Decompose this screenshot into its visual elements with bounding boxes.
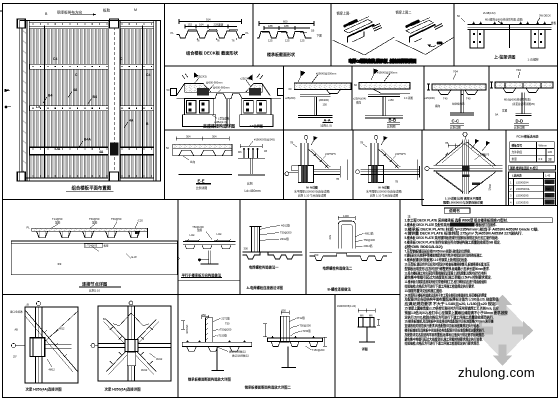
- svg-text:M- M详图: M- M详图: [306, 186, 318, 190]
- svg-text:7B: 7B: [290, 141, 293, 145]
- svg-text:7Φ4: 7Φ4: [516, 68, 522, 72]
- svg-text:钢梁上翼-: 钢梁上翼-: [337, 11, 351, 16]
- svg-text:4M12: 4M12: [141, 369, 148, 372]
- svg-text:JA: JA: [56, 147, 61, 151]
- section B-B: [353, 69, 413, 129]
- section A-A: [285, 71, 351, 128]
- svg-text:L50*50*5: L50*50*5: [325, 152, 336, 156]
- svg-text:188: 188: [284, 24, 289, 28]
- svg-text:500: 500: [328, 235, 332, 240]
- plan outer boundary: [20, 21, 161, 182]
- svg-text:钢承板排布方向: 钢承板排布方向: [57, 9, 83, 14]
- deck bearing blow-up detail 2: [245, 309, 327, 390]
- svg-text:L选用表: L选用表: [512, 174, 522, 178]
- svg-text:D-D: D-D: [516, 119, 524, 124]
- svg-text:2Φ12筋: 2Φ12筋: [364, 244, 373, 248]
- svg-text:T150@200: T150@200: [312, 349, 325, 352]
- svg-text:2T12筋: 2T12筋: [297, 316, 306, 320]
- svg-text:600: 600: [283, 19, 288, 23]
- black grid lines: [43, 26, 45, 178]
- svg-text:12.楼承板与钢梁连接采用栓钉穿透焊接工艺,栓钉焊接后应进行: 12.楼承板与钢梁连接采用栓钉穿透焊接工艺,栓钉焊接后应进行弯曲检验和: [405, 279, 488, 284]
- svg-text:L50X50X4: L50X50X4: [516, 180, 529, 184]
- svg-text:下翼: 下翼: [317, 34, 323, 38]
- row3 dividers: [283, 130, 285, 200]
- bearing connection detail (row2 cell1): [167, 73, 284, 129]
- svg-text:钢梁-楼承板连接 Φ-栓钉: 钢梁-楼承板连接 Φ-栓钉: [510, 166, 538, 170]
- svg-text:楼板型号: 楼板型号: [512, 143, 523, 147]
- corrugated profile: [177, 31, 246, 38]
- svg-text:及配筋详见各层结构平面布置图,板厚标注值执行规定要求验收规范: 及配筋详见各层结构平面布置图,板厚标注值执行规定要求验收规范.: [405, 332, 485, 337]
- weld stud method 1: [243, 224, 303, 270]
- svg-text:拉拔抽检,合格后方可进行下道工序施工检验规定执行要求规范.: 拉拔抽检,合格后方可进行下道工序施工检验规定执行要求规范.: [405, 341, 480, 346]
- svg-text:T50@200: T50@200: [280, 231, 292, 235]
- svg-text:7Φ4: 7Φ4: [453, 70, 459, 74]
- svg-text:比例1:10: 比例1:10: [89, 288, 100, 292]
- studs: [472, 22, 546, 25]
- svg-text:电焊螺栓构造做法二: 电焊螺栓构造做法二: [323, 265, 353, 270]
- svg-text:188: 188: [268, 24, 273, 28]
- deck slab: [182, 342, 251, 346]
- brace square detail 2: [91, 301, 171, 392]
- svg-text:M16@600(梅花形布置): M16@600(梅花形布置): [504, 98, 531, 102]
- svg-text:4M12: 4M12: [156, 358, 163, 361]
- svg-text:M6: M6: [369, 315, 373, 318]
- svg-text:150X28: 150X28: [185, 325, 189, 335]
- svg-text:22T2筋: 22T2筋: [221, 317, 230, 321]
- svg-text:纵向: 纵向: [190, 160, 196, 164]
- svg-text:M6: M6: [360, 315, 364, 318]
- svg-text:350: 350: [202, 313, 207, 317]
- row3 bottom: [3, 199, 425, 201]
- svg-text:比例(1:5): 比例(1:5): [321, 124, 332, 128]
- weld stud method 2: [247, 214, 392, 292]
- svg-text:600: 600: [546, 201, 551, 205]
- svg-text:比例 1:10 节点连接详图: 比例 1:10 节点连接详图: [370, 194, 399, 198]
- svg-text:1:45: 1:45: [545, 174, 551, 178]
- svg-text:8.铺板前应先清理平整楼面钢梁表面污物,并按规定进行放线布板: 8.铺板前应先清理平整楼面钢梁表面污物,并按规定进行放线布板施工.: [405, 253, 483, 258]
- svg-text:加筋: 加筋: [55, 220, 61, 224]
- svg-text:M16螺栓@600(梅花形布置,详图): M16螺栓@600(梅花形布置,详图): [485, 18, 523, 22]
- svg-text:1-T14@X5: 1-T14@X5: [85, 245, 98, 248]
- row2 dividers: [283, 66, 285, 130]
- svg-text:7B: 7B: [395, 181, 398, 184]
- svg-text:楼板: 楼板: [551, 21, 557, 25]
- isometric weld sketches: [333, 10, 454, 64]
- svg-text:125: 125: [300, 39, 305, 43]
- svg-text:水平隅撑L50X50X5(连接详图): 水平隅撑L50X50X5(连接详图): [294, 190, 330, 194]
- svg-text:914: 914: [206, 17, 211, 21]
- deck profile detail 1: [171, 17, 250, 56]
- brace connection detail M: [285, 135, 347, 197]
- svg-text:PL: PL: [171, 31, 175, 35]
- support columns: [185, 99, 272, 115]
- svg-text:钢承板楼面断面构造放大详图: 钢承板楼面断面构造放大详图: [188, 377, 232, 382]
- svg-text:4Φ12筋: 4Φ12筋: [365, 232, 374, 236]
- svg-text:W6mm: W6mm: [539, 143, 548, 147]
- svg-text:13.钢筋布置详见结构施工图纸.: 13.钢筋布置详见结构施工图纸.: [405, 288, 443, 293]
- svg-text:钢承板楼面断面构造放大详图二: 钢承板楼面断面构造放大详图二: [245, 385, 292, 390]
- svg-text:C4: C4: [146, 73, 150, 77]
- svg-text:1:5比例图: 1:5比例图: [250, 123, 263, 128]
- svg-text:5.楼承板 DECK PLATE 采用镀锌板按现行国家标准规: 5.楼承板 DECK PLATE 采用镀锌板按现行国家标准规定执行加工制作验收.: [405, 235, 499, 240]
- row2/3 divider: [165, 129, 558, 131]
- small stud I-beam detail (bottom middle-right): [337, 304, 380, 351]
- notes text lines: [404, 218, 552, 346]
- svg-text:E-W: E-W: [132, 255, 138, 259]
- svg-text:支座连接构造详图: 支座连接构造详图: [202, 122, 235, 128]
- svg-text:Ld=450mm: Ld=450mm: [245, 189, 261, 193]
- svg-text:4.镀锌量 DECK PLATE 标准锌层 275g/m²: 4.镀锌量 DECK PLATE 标准锌层 275g/m² 为A653M A65…: [405, 231, 523, 236]
- svg-text:应满足规范要求 不大于 L/180且≤20, L/180且≤: 应满足规范要求 不大于 L/180且≤20, L/180且≤20 规定.: [405, 301, 497, 306]
- svg-text:L型加劲板: L型加劲板: [218, 117, 230, 121]
- svg-text:550: 550: [546, 194, 551, 198]
- leader flags inside plan: [36, 57, 150, 154]
- svg-text:38: 38: [548, 157, 552, 161]
- svg-text:比例图: 比例图: [387, 125, 396, 129]
- long beam lines: [11, 241, 179, 275]
- svg-text:7.压型钢板铺设前应按70X50mm间距-放线定位焊接.: 7.压型钢板铺设前应按70X50mm间距-放线定位焊接.: [405, 248, 471, 253]
- svg-text:加劲板加筋: 加劲板加筋: [452, 102, 465, 106]
- svg-text:1:(3)螺栓: 1:(3)螺栓: [528, 58, 540, 62]
- svg-text:横向: 横向: [356, 101, 362, 105]
- beam dots: [33, 23, 160, 176]
- svg-text:比例详图: 比例详图: [450, 126, 461, 130]
- svg-text:1400: 1400: [343, 214, 349, 218]
- svg-text:350: 350: [282, 309, 287, 313]
- stud I-beam detail (Ld): [238, 137, 275, 193]
- svg-text:C50: C50: [437, 41, 443, 45]
- deck slab: [32, 228, 148, 231]
- svg-text:宽翼: 宽翼: [502, 109, 508, 113]
- zhulong watermark: [458, 295, 535, 381]
- svg-text:≤25(%)(X4): ≤25(%)(X4): [353, 97, 366, 101]
- svg-text:4A: 4A: [99, 150, 104, 154]
- svg-text:钢梁上翼二: 钢梁上翼二: [396, 10, 412, 15]
- center joint lines: [226, 99, 228, 127]
- svg-text:6.楼承板 DECK PLATE 制作安装应符合钢结构施工质: 6.楼承板 DECK PLATE 制作安装应符合钢结构施工质量验收规范GB 规定…: [405, 240, 501, 245]
- svg-text:4Φ12筋: 4Φ12筋: [281, 224, 290, 228]
- row1 dividers: [252, 4, 254, 67]
- svg-text:AB: AB: [15, 329, 19, 332]
- svg-text:水平隅撑L50X50X5(连接详图): 水平隅撑L50X50X5(连接详图): [366, 190, 402, 194]
- svg-text:≤25(200): ≤25(200): [285, 96, 295, 100]
- svg-text:300: 300: [244, 247, 249, 251]
- svg-text:次梁 H350(4A)连接详图: 次梁 H350(4A)连接详图: [26, 387, 63, 392]
- svg-text:电焊螺栓构造做法一: 电焊螺栓构造做法一: [249, 265, 279, 270]
- svg-text:2Φ12筋: 2Φ12筋: [280, 237, 289, 241]
- svg-text:型钢板出现变形,应及时进行修整更换.板端最小支承长度50mm: 型钢板出现变形,应及时进行修整更换.板端最小支承长度50mm要求.: [405, 266, 490, 271]
- horizontal secondary beams: [21, 64, 161, 178]
- sketch 2: [396, 18, 454, 55]
- svg-text:(按GB 50018-02): (按GB 50018-02): [405, 244, 443, 249]
- svg-text:楼承板端部及连续板中间支座处构造配筋详见标准图集规定要求执行: 楼承板端部及连续板中间支座处构造配筋详见标准图集规定要求执行.: [405, 328, 485, 333]
- svg-text:-C20: -C20: [137, 218, 143, 222]
- svg-text:7B: 7B: [360, 141, 363, 145]
- svg-text:@600-900mm: @600-900mm: [213, 86, 229, 90]
- svg-text:zhulong.com: zhulong.com: [458, 365, 535, 380]
- svg-text:N- N详图: N- N详图: [379, 186, 390, 190]
- svg-text:A-电焊螺栓连接做法详图: A-电焊螺栓连接做法详图: [247, 285, 284, 290]
- svg-text:A-A: A-A: [324, 118, 331, 123]
- svg-text:#190X0@200mm: #190X0@200mm: [377, 71, 397, 75]
- svg-text:1B: 1B: [264, 150, 267, 153]
- column H section: [30, 338, 45, 357]
- svg-text:≤25(200): ≤25(200): [425, 96, 435, 100]
- svg-text:145: 145: [548, 150, 553, 154]
- svg-text:上-弦架详图: 上-弦架详图: [494, 54, 515, 60]
- svg-text:L50X50X4L: L50X50X4L: [516, 187, 531, 191]
- svg-text:组合楼板平面布置图: 组合楼板平面布置图: [72, 185, 112, 192]
- row1/2 divider: [165, 65, 558, 67]
- left margin binding marks: [5, 89, 12, 108]
- svg-text:详图: 详图: [362, 346, 368, 351]
- svg-text:M12: M12: [60, 328, 65, 331]
- deck profile detail 2: [257, 19, 322, 57]
- svg-text:#190X0X5(@245): #190X0X5(@245): [254, 137, 275, 141]
- svg-text:PL: PL: [27, 225, 31, 229]
- svg-text:150: 150: [323, 103, 328, 107]
- svg-text:B4: B4: [48, 94, 52, 98]
- sketch 1: [333, 17, 395, 56]
- svg-text:B-螺栓连接做法: B-螺栓连接做法: [328, 287, 352, 292]
- brace square detail 1: [10, 302, 78, 392]
- svg-text:宜请按相关规范执行要求,构造配筋详见标准图集规定执行验收.: 宜请按相关规范执行要求,构造配筋详见标准图集规定执行验收.: [405, 323, 480, 328]
- diamond diagonals: [434, 142, 498, 193]
- svg-text:76: 76: [232, 38, 235, 42]
- svg-text:16.楼承板端部,及连续板中间支座处构造配筋详见标准图集(X: 16.楼承板端部,及连续板中间支座处构造配筋详见标准图集(XX)mm,未尽事: [405, 319, 495, 324]
- svg-text:C4: C4: [53, 57, 57, 61]
- top labels: [45, 8, 137, 16]
- svg-text:及配筋详见各层结构平面布置图,板厚标注值为 L/180且≤2: 及配筋详见各层结构平面布置图,板厚标注值为 L/180且≤20, 挠度限值: [405, 297, 500, 302]
- svg-text:组合楼板 DECK板 截面形状: 组合楼板 DECK板 截面形状: [186, 50, 239, 57]
- svg-text:#190X0X5(1:24): #190X0X5(1:24): [337, 304, 356, 308]
- brace connection detail N: [356, 135, 420, 197]
- svg-text:横向: 横向: [435, 104, 441, 108]
- svg-text:加筋: 加筋: [92, 220, 98, 224]
- svg-text:3.楼承板 DECK PLATE 材质 fy=235N/mm: 3.楼承板 DECK PLATE 材质 fy=235N/mm²,相当于 A653…: [405, 226, 539, 231]
- truss / edge beam detail (top right): [457, 11, 557, 62]
- svg-text:M: M: [134, 8, 137, 12]
- svg-text:做法(比例做法): 做法(比例做法): [232, 354, 249, 358]
- left beam hatch ticks: [22, 30, 27, 174]
- row4 dividers: [177, 200, 179, 398]
- diamond brace detail: [425, 132, 503, 204]
- svg-text:允许跨度: 允许跨度: [512, 150, 523, 154]
- svg-text:4M12: 4M12: [49, 369, 56, 372]
- column: [462, 140, 468, 195]
- svg-text:(AB/200): (AB/200): [319, 98, 329, 102]
- svg-text:重量: 重量: [512, 157, 518, 161]
- svg-text:L4Θ: L4Θ: [217, 232, 222, 236]
- svg-text:7B: 7B: [336, 178, 339, 181]
- section D-D: [490, 68, 553, 130]
- long deck section (bottom-left): [11, 217, 179, 292]
- svg-text:C-C: C-C: [452, 119, 460, 124]
- svg-text:次梁 H350(6A)连接详图: 次梁 H350(6A)连接详图: [105, 387, 142, 392]
- parallel-direction detail: [178, 225, 240, 281]
- svg-text:板肋: 板肋: [103, 8, 111, 13]
- corner / intersection column blocks: [17, 19, 118, 181]
- svg-text:304: 304: [212, 135, 217, 139]
- right edge beam: [154, 21, 161, 182]
- svg-text:≥T50@200: ≥T50@200: [219, 328, 232, 332]
- svg-text:9.楼承板铺设时按板宽2.1:1号钢梁上放线固定检查.: 9.楼承板铺设时按板宽2.1:1号钢梁上放线固定检查.: [405, 257, 468, 262]
- E-E detail: [166, 135, 232, 190]
- svg-text:L50*50*5: L50*50*5: [479, 153, 490, 157]
- svg-text:L50*50*5: L50*50*5: [395, 152, 406, 156]
- selection tables (right): [509, 134, 556, 206]
- svg-text:15.钢梁上翼缘宽度≥1.25倍栓钉直径时方可采用穿透焊工艺: 15.钢梁上翼缘宽度≥1.25倍栓钉直径时方可采用穿透焊工艺.否则m≤a, 且应: [405, 306, 500, 311]
- top edge beam: [27, 21, 161, 29]
- svg-text:152: 152: [188, 23, 193, 27]
- svg-text:Φ9: Φ9: [58, 262, 62, 266]
- columns: [470, 30, 545, 49]
- svg-text:14.本图所示楼板构造做法适用于本工程全部组合楼盖部位,各层: 14.本图所示楼板构造做法适用于本工程全部组合楼盖部位,各层楼板的厚度: [405, 292, 488, 297]
- bottom row divider: [334, 295, 336, 398]
- svg-text:L50X50X5: L50X50X5: [516, 194, 529, 198]
- vertical divider right of plan view: [164, 4, 166, 200]
- svg-text:做法(比例做法): 做法(比例做法): [229, 350, 246, 354]
- svg-text:B-B: B-B: [389, 118, 397, 123]
- svg-text:预留1.5倍,5(X/2),栓钉中心至钢梁上翼缘边缘距离不小: 预留1.5倍,5(X/2),栓钉中心至钢梁上翼缘边缘距离不小于35mm 要求.按…: [405, 310, 509, 315]
- svg-text:2U48(1X2): 2U48(1X2): [483, 11, 496, 15]
- svg-text:9A: 9A: [495, 113, 498, 117]
- section C-C: [425, 70, 487, 130]
- svg-text:隅撑L50X50X5与次梁连接详图: 隅撑L50X50X5与次梁连接详图: [443, 200, 483, 205]
- deck outline with plateaus over supports: [177, 84, 271, 96]
- svg-text:1.本工程 DECK PLATE 采用楼承板 选用 W600: 1.本工程 DECK PLATE 采用楼承板 选用 W600型 组合楼承板规格V…: [405, 218, 508, 223]
- svg-text:T40: T40: [466, 97, 471, 101]
- svg-text:PL: PL: [246, 31, 250, 35]
- svg-text:⊥B: ⊥B: [25, 303, 29, 307]
- svg-text:0.9: 0.9: [539, 157, 543, 161]
- deck bearing blow-up detail 1: [181, 313, 252, 382]
- svg-text:比例详图: 比例详图: [196, 186, 207, 190]
- svg-text:比例: 比例: [247, 182, 253, 186]
- deck stripe field: [30, 29, 161, 178]
- svg-text:#190X0@200mm: #190X0@200mm: [316, 72, 336, 76]
- svg-text:11.组合楼板施工时应采取可靠措施保证混凝土浇筑质量,浇筑时: 11.组合楼板施工时应采取可靠措施保证混凝土浇筑质量,浇筑时应均匀布料: [405, 270, 488, 275]
- svg-text:(详见总说明详图35): (详见总说明详图35): [512, 102, 535, 106]
- svg-text:E-E: E-E: [198, 179, 205, 184]
- svg-text:450右: 450右: [488, 184, 492, 191]
- svg-text:@600-900mm: @600-900mm: [206, 81, 222, 85]
- svg-text:1B: 1B: [311, 29, 314, 33]
- svg-text:590: 590: [546, 187, 551, 191]
- beam: [30, 344, 71, 348]
- beam: [434, 166, 503, 171]
- svg-text:10.压型板,铺设完毕后应及时固定并检查板缝搭接情况,板端搭: 10.压型板,铺设完毕后应及时固定并检查板缝搭接情况,板端搭接长度,如压: [405, 262, 491, 267]
- svg-text:450: 450: [546, 180, 551, 184]
- svg-text:≤150: ≤150: [388, 98, 394, 102]
- svg-text:76: 76: [217, 38, 220, 42]
- svg-text:T50@200: T50@200: [364, 238, 376, 242]
- diagonals: [25, 310, 78, 372]
- svg-text:76: 76: [197, 38, 200, 42]
- svg-text:T50: T50: [225, 322, 230, 326]
- svg-text:比例详图: 比例详图: [514, 126, 525, 130]
- svg-text:4A: 4A: [129, 119, 134, 123]
- svg-text:125: 125: [285, 39, 290, 43]
- row4 bottom: [3, 294, 401, 296]
- svg-text:平行于楼承板方向构造做法: 平行于楼承板方向构造做法: [182, 272, 222, 277]
- svg-text:L4Θ: L4Θ: [190, 233, 195, 237]
- svg-text:拉拔抽检,合格后方可进行下道工序施工检验规定执行要求.: 拉拔抽检,合格后方可进行下道工序施工检验规定执行要求.: [405, 284, 475, 289]
- svg-text:说明书: 说明书: [449, 208, 460, 213]
- svg-text:B4: B4: [93, 95, 97, 99]
- side brackets: [171, 89, 177, 96]
- svg-text:164: 164: [199, 23, 204, 27]
- svg-text:T50@200: T50@200: [299, 323, 311, 327]
- svg-text:125: 125: [268, 39, 273, 43]
- svg-text:1:1详图: 1:1详图: [404, 96, 413, 100]
- svg-text:避免集中堆载引起过大挠度变形,施工荷载控制要求规定执行验收.: 避免集中堆载引起过大挠度变形,施工荷载控制要求规定执行验收.: [404, 336, 483, 341]
- svg-text:M6: M6: [238, 151, 242, 154]
- svg-text:≥T150筋: ≥T150筋: [217, 333, 227, 337]
- svg-text:定执行,5(X/2),检验合格后方可进行下道工序施工质量验收: 定执行,5(X/2),检验合格后方可进行下道工序施工质量验收规范执行.: [404, 314, 494, 319]
- svg-text:坡口全熔透: 坡口全熔透: [10, 310, 23, 314]
- svg-text:3W DECK: 3W DECK: [539, 14, 551, 18]
- svg-text:25*: 25*: [13, 356, 17, 359]
- svg-text:L5: L5: [36, 105, 40, 109]
- svg-text:T40: T40: [443, 97, 448, 101]
- svg-text:比例 1:10 节点连接详图: 比例 1:10 节点连接详图: [298, 194, 327, 198]
- svg-text:228兼容: 228兼容: [214, 23, 224, 27]
- svg-text:电焊C/螺栓连接,楼承板_侧边梁焊接详图: 电焊C/螺栓连接,楼承板_侧边梁焊接详图: [349, 59, 417, 64]
- svg-text:304: 304: [186, 135, 191, 139]
- svg-text:≥T150筋: ≥T150筋: [301, 329, 311, 333]
- svg-text:T50@50: T50@50: [111, 217, 122, 221]
- svg-text:楼承板截面形状: 楼承板截面形状: [267, 51, 296, 57]
- svg-text:L53X53X5: L53X53X5: [516, 200, 529, 204]
- central vertical beam band: [108, 21, 120, 182]
- svg-text:4A: 4A: [73, 88, 78, 92]
- svg-text:加筋: 加筋: [197, 228, 203, 232]
- svg-text:避免集中堆载引起过大挠度变形,施工荷载≤1.5kPa 控制要: 避免集中堆载引起过大挠度变形,施工荷载≤1.5kPa 控制要求规定.: [404, 275, 492, 280]
- svg-text:板厚: 板厚: [104, 244, 110, 248]
- left edge beam: [20, 21, 30, 182]
- svg-text:B4A: B4A: [84, 138, 91, 142]
- bases: [183, 115, 274, 127]
- svg-text:FC3A楼板选用表: FC3A楼板选用表: [517, 134, 539, 139]
